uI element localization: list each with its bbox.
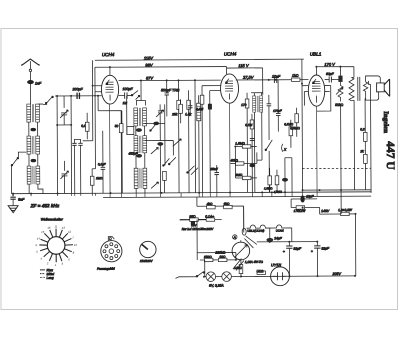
svg-text:25k: 25k [171,112,178,116]
switch S1b wave change [11,152,27,194]
svg-text:24μF: 24μF [273,236,282,240]
dashed chassis line [302,167,370,169]
svg-text:UCH4: UCH4 [276,229,284,233]
tube1 pins left [93,86,102,92]
rotary labels [35,224,77,267]
svg-text:Lang: Lang [46,276,53,280]
resistor 140 [234,264,243,276]
wire vertical x72 [70,96,73,193]
bus y196.5 [103,196,371,197]
wire x355 down [354,214,356,276]
svg-text:175Ω/W: 175Ω/W [294,209,307,213]
svg-text:8V, 0,25A: 8V, 0,25A [209,284,224,288]
svg-text:4kΩ: 4kΩ [207,202,213,206]
wire below tube1 [98,96,122,194]
svg-text:10Ω: 10Ω [219,255,226,259]
wire lamps link [216,275,272,277]
svg-text:11: 11 [55,224,58,228]
svg-text:14: 14 [37,237,41,241]
bus y190.5 right [303,189,371,191]
capacitor 10uF [291,194,317,207]
lens cap osc1 [136,129,141,132]
svg-text:1M: 1M [123,101,128,105]
capacitor block cathode2 [208,91,212,193]
capacitor 170pF [273,80,282,132]
svg-text:115V: 115V [144,55,153,60]
svg-text:4,5MΩ: 4,5MΩ [274,190,283,194]
lens cap det [250,164,255,167]
resistor 4k [207,202,216,209]
rail 115V [95,55,304,61]
capacitor det [250,138,255,192]
wire screen tube3 [317,86,331,112]
svg-text:UBL1: UBL1 [310,52,322,57]
resistor 2k fb2 [359,149,367,190]
svg-text:+: + [283,250,285,254]
legend kurz [40,268,53,272]
resistor IF1 [179,99,183,123]
resistor 50k mid [115,111,124,194]
resistor 10 [197,253,236,262]
svg-text:UCH4: UCH4 [224,52,237,57]
svg-text:98V: 98V [145,62,152,67]
resistor 200k g2 [196,86,204,193]
wire vertical x58 [56,96,59,193]
tube1 top cap wire [109,67,111,75]
trimmer arrow osc2 [151,147,159,154]
wire x127.6 [123,96,134,135]
svg-text:450pF: 450pF [128,152,138,156]
capacitor pair mid-left [72,139,83,193]
urdox resistor [214,240,249,266]
wire pot down ext [340,190,342,214]
svg-text:60pF: 60pF [326,72,335,76]
svg-text:13: 13 [62,226,66,230]
svg-text:100pF: 100pF [123,87,134,91]
rail 87V [119,75,221,81]
svg-text:32μF: 32μF [293,247,302,251]
svg-text:32μF: 32μF [321,247,330,251]
resistor 35ohm [180,218,207,222]
meter dial [140,241,156,257]
IF2 coil a [251,93,264,193]
svg-text:1,5MΩ: 1,5MΩ [264,186,273,190]
legend lang [40,276,54,280]
wire vertical x371.5 B+ [368,81,371,193]
lens cap af [282,158,287,193]
resistor 0.1M left [81,113,89,140]
resistor 175/W [291,206,320,213]
tube UCH4 no1 [101,75,118,104]
svg-text:Fassungsbild: Fassungsbild [97,267,115,271]
lamp 1 [206,272,216,282]
svg-text:500pF TRB: 500pF TRB [161,88,180,92]
tube1 bottom pin [109,104,111,193]
wire drop x200 [196,197,198,206]
wire drop x200b [197,220,205,277]
resistor U1 [256,269,265,274]
capacitor 25nF [209,165,219,193]
wire heater row [197,206,244,233]
svg-text:Nur bei 110v.150v.220V: Nur bei 110v.150v.220V [182,227,215,231]
resistor 1.5M af1 [264,168,273,193]
wire vertical x93.5 from 115V [82,60,92,141]
resistor 1.8W [320,207,356,216]
svg-text:12: 12 [68,230,72,234]
resistor 25k [171,80,181,193]
band coil L3 [27,166,43,194]
svg-text:205V: 205V [331,272,341,276]
speaker [366,76,390,100]
trimmer arrow osc right [156,110,164,117]
bus tie stubs [13,190,317,198]
svg-text:115 V: 115 V [238,63,249,68]
rectifier UY1N [271,263,290,285]
svg-text:15: 15 [41,230,45,234]
mains text 35ohm [189,215,214,219]
svg-text:40kΩ: 40kΩ [230,159,238,163]
svg-text:2: 2 [46,261,49,265]
svg-text:10μF: 10μF [306,194,314,198]
resistor 150 [200,255,219,262]
svg-text:25nF: 25nF [209,167,218,171]
svg-text:1,5MΩ: 1,5MΩ [235,141,245,145]
svg-text:200pF: 200pF [72,87,84,91]
capacitor 32uF no1 [283,242,302,277]
resistor 40k [230,158,257,165]
capacitor block tone [339,67,342,82]
tube3 pins [302,86,331,106]
svg-text:170pF: 170pF [273,109,282,113]
svg-text:0,5MΩ: 0,5MΩ [290,126,300,130]
antenna [21,59,40,80]
capacitor osc right [158,104,163,141]
capacitor 200pF [72,87,84,99]
wire osc link y123 [145,122,165,125]
osc switch arrow [150,122,158,132]
resistor 0.2M fb1 [360,98,367,154]
svg-text:8nF: 8nF [18,198,25,202]
tube2 bottom pin [229,103,231,192]
wire 27.5V [236,74,309,80]
trimmer arrow mid [173,139,182,147]
osc coil block pair2 [134,136,147,169]
rail 170V [316,62,354,78]
resistor 0.1M af [284,120,294,148]
svg-text:1,15A 4W-7Ω: 1,15A 4W-7Ω [245,260,264,264]
resistor 6k [224,202,233,209]
wire vertical x137 top [136,80,145,105]
svg-text:170: 170 [241,103,247,107]
lens cap osc right [158,143,163,193]
svg-text:0,1M: 0,1M [245,123,252,127]
capacitor 1nF antenna [27,80,42,104]
resistor 170 [241,93,249,193]
svg-text:87V: 87V [146,75,153,80]
capacitor 27nF [267,95,272,118]
svg-text:U1Ω: U1Ω [256,269,263,273]
switch contacts mid [163,157,176,166]
switch det diagonal [265,118,273,193]
svg-text:50: 50 [115,124,119,128]
node A circle [232,235,237,240]
wire heater mid y242 [257,228,318,242]
switch contacts mid2 [187,166,198,175]
resistor small mid [163,171,167,193]
capacitor IF1 [188,100,193,116]
svg-text:UCH4: UCH4 [102,52,115,57]
tube UCH4 no2 [220,74,238,103]
resistor 1.5M [235,141,257,148]
resistor 0.1A [191,218,222,225]
lens cap osc2 [136,154,141,157]
wire vertical x96 from 98V [92,67,96,169]
potentiometer 50k [335,81,344,190]
antenna coil L1 [27,104,40,136]
tube2 pins left [202,86,221,91]
resistor 0.5M grid3 [290,108,300,137]
svg-text:1,5k: 1,5k [185,112,191,116]
wire vertical x165.6 [164,104,166,165]
capacitor 24uF [267,236,283,241]
svg-text:10nF: 10nF [272,75,281,79]
capacitor 500pF TRB [161,80,180,116]
svg-text:50kΩ: 50kΩ [335,103,343,107]
svg-text:6kΩ: 6kΩ [224,202,230,206]
svg-text:Wellenschalter: Wellenschalter [41,217,64,221]
svg-text:+: + [311,249,313,253]
resistor 2M [234,173,257,180]
capacitor 8nF to ground [8,194,25,213]
tube socket view [101,237,122,262]
svg-text:1,8+0,2W: 1,8+0,2W [338,208,353,212]
svg-text:ZF = 452 kHz: ZF = 452 kHz [30,203,60,208]
svg-text:145V: 145V [321,209,330,213]
svg-text:Ingelen: Ingelen [382,111,389,133]
wire mains [176,277,207,279]
main bus gnd y192.5 [12,192,372,194]
svg-text:1nF: 1nF [35,82,42,86]
svg-text:0,1: 0,1 [81,124,86,128]
svg-text:447 U: 447 U [384,141,396,170]
svg-text:16: 16 [47,226,51,230]
trimmer cap C4 [60,161,68,194]
svg-text:110/220V: 110/220V [140,259,154,263]
tube2 plate rail 115V [226,63,262,95]
trimmer arrow osc3 [128,151,158,188]
resistor 4.5M af2 [273,170,282,194]
svg-text:170 V: 170 V [324,62,335,67]
switch S2a [131,91,140,100]
wire grid tube1 [55,95,102,97]
svg-text:27,5V: 27,5V [242,75,254,80]
band coil L2 [27,136,40,166]
trimmer cap C3 [60,96,68,125]
svg-text:0,1μF: 0,1μF [98,162,106,166]
svg-text:0,2: 0,2 [360,127,365,131]
svg-text:1kΩ: 1kΩ [292,74,299,78]
capacitor 60pF tone [325,72,341,83]
IF1 secondary coil [197,95,202,193]
legend mittel [40,272,54,276]
svg-text:150Ω: 150Ω [204,255,212,259]
switch S1a [38,96,53,104]
svg-text:UBL1(UCH4): UBL1(UCH4) [247,229,264,233]
wire grid AF to tube3 [257,152,292,192]
wire jumper y124 [57,124,71,126]
osc coil block pair1 [134,108,147,136]
wire osc link y140 [145,140,174,155]
svg-text:1MΩ: 1MΩ [96,176,103,180]
wire vertical x303 anode supply [301,59,304,190]
output transformer [349,77,368,190]
rotary switch wheel [39,229,73,263]
bus y276.5 bottom [272,275,355,277]
heater chain bumps [242,206,292,248]
rail 98V [95,62,227,68]
capacitor 100pF [119,87,134,99]
resistor 1500 [185,90,192,193]
capacitor 10nF [272,75,281,83]
svg-text:10: 10 [74,243,78,247]
capacitor 0.1uF mid [96,131,106,194]
tube UBL1 [308,75,325,106]
capacitor 32uF no2 [311,242,330,277]
osc coil block pair3 [134,168,147,193]
bracket X volume [235,144,287,178]
resistor 1k anode [291,74,300,82]
mains switch [196,272,205,277]
svg-text:0,2M: 0,2M [196,107,203,111]
resistor 1M left [90,169,94,194]
tube3 bottom pin [316,106,318,192]
lamp 2 [222,272,232,282]
wire vertical x196 [194,80,197,192]
svg-text:2k: 2k [359,149,364,153]
resistor 0.1M det [245,114,254,141]
